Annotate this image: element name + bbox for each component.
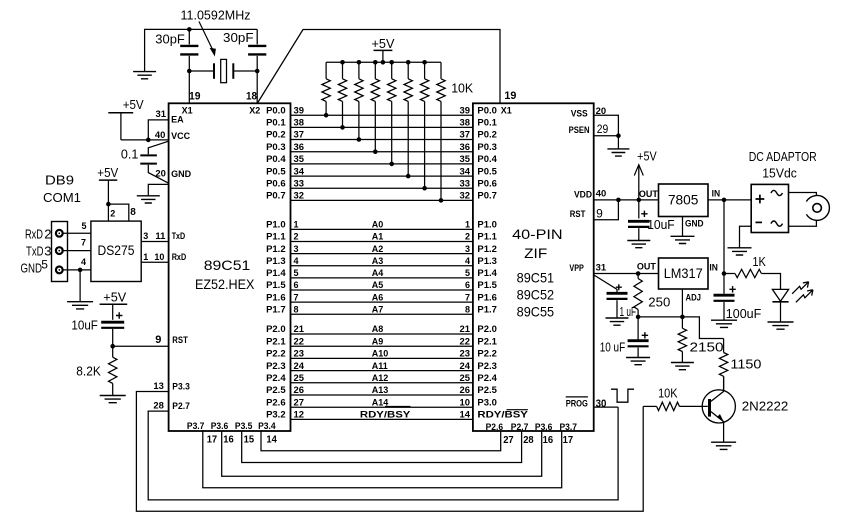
wire: DS275 pin 8 strap [108,204,128,221]
svg-text:IN: IN [712,188,721,198]
svg-text:P3.3: P3.3 [172,382,190,392]
svg-text:P1.5: P1.5 [266,280,286,290]
ground for DB9 GND [67,302,93,309]
svg-text:2: 2 [110,208,115,218]
wire/net P1.3 bus row address A3 [266,256,497,266]
wire: adaptor minus to jack sleeve [789,220,817,226]
label: DS275 pin 3 / U1 pin 11 / TxD [143,231,185,241]
wire/net bus row P2.6 to P3.0 [266,397,497,407]
svg-text:36: 36 [460,142,471,152]
wire/net P0.6 bus row [266,178,497,188]
wire/net bus row P2.1 to P2.1 [266,336,497,346]
junction: ADJ node [680,315,685,320]
connector J1 DB9 header [52,222,68,282]
svg-text:250: 250 [648,295,670,310]
svg-text:16: 16 [543,434,554,446]
wire: ZIF VDD pin 40 to 7805 OUT [594,199,659,201]
label: ZIF bottom pins P2.6 P2.7 P3.6 P3.7 [486,422,577,432]
svg-text:24: 24 [460,361,471,371]
svg-text:89C51: 89C51 [517,270,555,286]
svg-text:8: 8 [294,304,299,314]
label: TxD 3 [26,244,51,259]
svg-text:P3.6: P3.6 [211,421,229,431]
svg-text:P2.7: P2.7 [172,401,190,411]
svg-text:29: 29 [597,122,609,136]
svg-text:7805: 7805 [668,192,699,208]
svg-text:0.1: 0.1 [121,147,139,162]
ground for U1 GND pin [137,196,160,203]
svg-text:P1.3: P1.3 [266,256,286,266]
ic U3 DS275 level shifter [91,221,141,281]
svg-text:35: 35 [460,154,471,164]
svg-text:EZ52.HEX: EZ52.HEX [195,276,255,292]
led D1 power indicator [772,282,813,322]
junction: crystal right lead [255,69,260,74]
resistor RN1-2 10K pull-up to P0.2 [355,62,363,142]
svg-text:3: 3 [143,231,148,241]
junction: LM317 IN node [722,271,727,276]
svg-text:1150: 1150 [730,357,761,372]
junction: crystal left lead [187,69,192,74]
wire: ZIF PSEN pin 29 to ground [594,135,619,137]
wire: U1 P3.6 pin 16 to ZIF P3.6 pin 16 [222,431,542,476]
svg-text:10K: 10K [658,385,678,400]
svg-text:17: 17 [207,433,218,445]
power +5V to reset cap [100,290,128,320]
svg-text:26: 26 [294,385,305,395]
resistor RN1-0 10K pull-up to P0.0 [322,62,330,117]
svg-text:38: 38 [460,118,471,128]
svg-text:EA: EA [171,115,184,125]
ground for adaptor minus [728,248,752,255]
svg-text:A7: A7 [372,304,384,314]
svg-text:A2: A2 [372,244,384,254]
svg-text:40: 40 [596,189,607,199]
svg-text:+5V: +5V [372,36,395,51]
junction: RST node [110,344,115,349]
label: pin 13 P3.3 [153,381,189,391]
svg-text:P0.7: P0.7 [477,191,497,201]
svg-text:PSEN: PSEN [569,125,590,135]
svg-text:COM1: COM1 [43,190,81,205]
svg-text:P2.4: P2.4 [477,373,497,383]
svg-text:P1.0: P1.0 [266,220,286,230]
junction: R2/ADJ/10uF node [636,315,641,320]
svg-text:11.0592MHz: 11.0592MHz [181,8,251,23]
wire: U1 P3.7 pin 17 to ZIF P3.7 pin 17 [203,431,562,488]
svg-text:P2.5: P2.5 [477,385,497,395]
power +5V to DS275 pin 2 [97,165,118,221]
svg-text:TxD: TxD [172,231,186,241]
svg-text:RST: RST [172,335,188,345]
svg-text:P3.7: P3.7 [187,421,205,431]
svg-text:P2.3: P2.3 [477,361,497,371]
svg-text:P1.6: P1.6 [266,292,286,302]
resistor R4 1150 [719,339,761,391]
label: pin 28 P2.7 [153,401,189,411]
resistor RN1-3 10K pull-up to P0.3 [371,62,379,154]
svg-text:P0.3: P0.3 [477,142,497,152]
junction on pull-up rail [357,60,362,65]
svg-text:P2.3: P2.3 [266,361,286,371]
svg-text:P0.1: P0.1 [477,118,497,128]
svg-text:P2.6: P2.6 [266,397,286,407]
svg-text:A10: A10 [372,349,389,359]
label: RxD 2 [25,226,51,241]
capacitor C2 30pF (right) [223,29,266,103]
ground for Q1 emitter [711,442,736,449]
svg-text:P0.2: P0.2 [266,130,286,140]
svg-text:14: 14 [460,410,471,420]
svg-text:P3.0: P3.0 [477,397,497,407]
wire/net P0.4 bus row [266,154,497,164]
svg-text:9: 9 [155,334,161,346]
svg-text:30: 30 [596,398,607,410]
svg-text:RxD: RxD [25,226,43,241]
svg-text:37: 37 [460,130,471,140]
svg-text:2: 2 [294,232,299,242]
junction: 15V rail node [722,198,727,203]
wire: 15V rail down to LM317 IN [723,200,725,274]
wire/net bus row P2.4 to P2.4 [266,373,497,383]
svg-text:31: 31 [156,109,167,119]
ground for crystal caps [133,72,156,79]
svg-text:P2.7: P2.7 [511,422,529,432]
svg-text:11: 11 [155,231,165,241]
svg-text:P1.0: P1.0 [477,220,497,230]
transistor Q1 2N2222 NPN [702,376,788,442]
svg-text:P1.2: P1.2 [266,244,286,254]
resistor RN1-4 10K pull-up to P0.4 [388,62,396,166]
svg-text:36: 36 [294,142,305,152]
power +5V to EA/VCC [108,97,144,140]
capacitor C5 10uF at 7805 output [628,200,675,240]
wire: DB9 pin3 TxD to DS275 pin 7 [63,250,91,252]
svg-text:P0.5: P0.5 [477,166,497,176]
svg-text:25: 25 [460,373,471,383]
svg-text:P1.6: P1.6 [477,292,497,302]
junction: VDD/RST node [616,198,621,203]
svg-text:P2.1: P2.1 [266,336,286,346]
wire: pull-up top rail [326,61,441,63]
svg-text:P2.5: P2.5 [266,385,286,395]
resistor R5 1K to LED [724,254,781,289]
svg-text:P0.3: P0.3 [266,142,286,152]
svg-text:2: 2 [44,226,51,241]
svg-text:ZIF: ZIF [524,245,547,261]
junction: +5V to pull-up rail [381,60,386,65]
resistor R2 250 [634,274,670,317]
wire/net P1.4 bus row address A4 [266,268,497,278]
svg-text:DC ADAPTOR: DC ADAPTOR [749,149,817,164]
svg-text:24: 24 [294,361,305,371]
resistor R3 2150 [678,317,723,362]
svg-text:P0.5: P0.5 [266,166,286,176]
svg-text:4: 4 [465,256,470,266]
svg-text:P2.6: P2.6 [486,422,504,432]
svg-text:P2.2: P2.2 [266,349,286,359]
svg-text:89C52: 89C52 [517,287,555,303]
svg-text:TxD: TxD [26,244,44,259]
svg-text:OUT: OUT [639,189,659,199]
svg-text:PROG: PROG [566,398,588,408]
svg-text:+5V: +5V [97,165,118,180]
svg-text:22: 22 [294,336,305,346]
svg-text:89C55: 89C55 [517,304,555,320]
svg-text:VSS: VSS [571,109,588,119]
svg-text:X1: X1 [501,105,512,115]
wire/net P0.5 bus row [266,166,497,176]
svg-text:7: 7 [294,292,299,302]
svg-text:1K: 1K [752,254,766,269]
svg-text:RxD: RxD [172,252,187,262]
svg-text:39: 39 [294,105,305,115]
wire/net P1.7 bus row address A7 [266,304,497,314]
svg-text:5: 5 [82,221,87,231]
source: DC adaptor box [751,184,788,232]
svg-text:IN: IN [709,263,718,273]
wire: 7805 IN to DC adaptor [708,199,751,201]
svg-text:35: 35 [294,154,305,164]
junction on pull-up rail [373,60,378,65]
wire: DB9 pin5 GND to DS275 pin 4 [63,269,91,271]
svg-text:2N2222: 2N2222 [742,399,789,414]
resistor RN1-6 10K pull-up to P0.6 [420,62,428,190]
svg-text:5: 5 [41,258,48,272]
svg-text:6: 6 [294,280,299,290]
svg-text:23: 23 [294,349,305,359]
junction: DB9 ground branch [78,268,83,273]
svg-text:28: 28 [523,434,534,446]
ground for C7 [626,358,650,365]
svg-text:10uF: 10uF [71,318,98,333]
svg-text:P3.7: P3.7 [560,422,578,432]
svg-text:10 uF: 10 uF [600,340,626,355]
svg-text:4: 4 [294,256,299,266]
svg-text:38: 38 [294,118,305,128]
ground for 7805 [671,236,695,243]
svg-text:ADJ: ADJ [686,292,702,302]
wire/net P1.5 bus row address A5 [266,280,497,290]
svg-text:OUT: OUT [637,262,657,272]
resistor RN1-5 10K pull-up to P0.5 [404,62,412,178]
junction: EA joins VCC rail [146,138,151,143]
svg-text:37: 37 [294,130,305,140]
label: DS275 pin 1 / U1 pin 10 / RxD [143,252,186,262]
svg-text:17: 17 [563,434,574,446]
svg-text:21: 21 [460,324,471,334]
svg-text:1: 1 [143,252,148,262]
svg-text:15Vdc: 15Vdc [762,166,797,181]
power +5V for pull-up network [372,36,395,62]
svg-text:34: 34 [294,166,305,176]
svg-text:1 uF: 1 uF [620,304,637,319]
wire: adaptor plus to jack tip [789,193,817,196]
junction on pull-up rail [389,60,394,65]
label: VDD pin 40 [574,189,606,200]
wire/net bus row P2.5 to P2.5 [266,385,497,395]
svg-text:10uF: 10uF [647,217,675,232]
wire/net P1.0 bus row address A0 [266,220,497,230]
svg-text:4: 4 [81,257,86,267]
capacitor C7 10uF on VPP net [600,317,649,357]
svg-text:RDY/BSY: RDY/BSY [360,410,411,420]
junction: left cap to rail [187,27,192,32]
svg-text:P0.4: P0.4 [477,154,497,164]
svg-text:21: 21 [294,324,305,334]
svg-text:32: 32 [460,191,471,201]
svg-text:P1.7: P1.7 [266,304,286,314]
wire: adaptor minus to ground [740,226,752,247]
power +5V arrow at 7805 output [634,148,657,200]
svg-text:100uF: 100uF [726,306,762,321]
regulator U5 LM317 [659,258,709,289]
svg-text:P0.0: P0.0 [477,105,497,115]
wire: VCC pin 40 rail [121,139,169,141]
svg-text:1: 1 [465,220,470,230]
connector: DC barrel jack [806,196,829,221]
svg-text:13: 13 [153,381,164,391]
svg-text:10: 10 [460,397,471,407]
svg-text:18: 18 [246,91,257,103]
svg-text:32: 32 [294,191,305,201]
svg-text:P1.3: P1.3 [477,256,497,266]
wire/net P1.1 bus row address A1 [266,232,497,242]
wire/net bus row P3.2 to RDY/BSY [266,407,528,420]
svg-text:+5V: +5V [103,290,126,305]
svg-text:1: 1 [294,220,299,230]
svg-text:A6: A6 [372,292,384,302]
ground for C8 [711,320,737,327]
svg-text:5: 5 [465,268,470,278]
svg-text:A0: A0 [372,220,384,230]
svg-text:P1.2: P1.2 [477,244,497,254]
capacitor C6 1uF on VPP [594,275,636,319]
label: 11.0592MHz with arrow to crystal [181,8,251,57]
wire: X2 to ZIF X1 (diagonal and top run) [257,30,500,104]
wire/net bus row P2.0 to P2.0 [266,324,497,334]
junction: DS275 pin2/pin8 node [106,202,111,207]
svg-text:A13: A13 [372,385,389,395]
svg-text:10K: 10K [451,81,473,96]
junction: VSS/PSEN ground node [616,133,621,138]
svg-text:30pF: 30pF [223,30,254,45]
svg-text:8: 8 [130,207,136,218]
svg-text:27: 27 [294,397,305,407]
wire: PSEN node to ground [617,136,619,149]
svg-text:RST: RST [570,209,586,219]
svg-text:15: 15 [244,433,255,445]
svg-text:P0.0: P0.0 [266,105,286,115]
svg-text:P2.0: P2.0 [266,324,286,334]
wire: ground rail over 30pF caps [145,29,258,71]
capacitor C3 0.1 decoupling [121,141,169,183]
svg-text:P3.5: P3.5 [235,421,253,431]
svg-text:P3.6: P3.6 [535,422,553,432]
svg-text:DS275: DS275 [98,242,135,258]
svg-text:20: 20 [155,169,166,179]
svg-text:P1.7: P1.7 [477,304,497,314]
svg-text:GND: GND [685,219,704,229]
svg-text:P0.7: P0.7 [266,191,286,201]
wire/net P0.1 bus row [266,118,497,128]
symbol: negative pulse waveform [611,389,634,402]
svg-text:P2.1: P2.1 [477,336,497,346]
svg-text:14: 14 [266,433,277,445]
wire: ADJ net [638,317,724,339]
svg-text:89C51: 89C51 [204,257,251,273]
wire: ZIF RST pin 9 to VDD [594,200,619,220]
svg-text:30pF: 30pF [155,32,185,47]
svg-text:2150: 2150 [690,340,724,355]
svg-text:VPP: VPP [569,263,584,273]
svg-text:A8: A8 [372,324,384,334]
svg-text:27: 27 [503,434,514,446]
svg-text:VCC: VCC [171,131,191,141]
svg-text:28: 28 [153,401,164,411]
wire: ZIF VSS pin 20 to ground [594,115,619,136]
svg-text:P0.2: P0.2 [477,130,497,140]
junction: VPP/250/10uF node [636,271,641,276]
wire: 7805 GND lead [682,217,684,237]
resistor R6 10K to transistor base [643,385,708,410]
svg-text:A12: A12 [372,373,389,383]
wire/net P1.6 bus row address A6 [266,292,497,302]
svg-text:A9: A9 [372,336,384,346]
svg-text:2: 2 [465,232,470,242]
svg-text:12: 12 [294,410,305,420]
svg-text:3: 3 [44,244,51,259]
label: U1 bottom pins P3.7 P3.6 P3.5 P3.4 [187,421,276,431]
svg-text:P0.4: P0.4 [266,154,286,164]
wire: GND pin 20 to ground [148,184,168,195]
svg-text:34: 34 [460,166,471,176]
svg-text:P3.2: P3.2 [266,410,286,420]
svg-text:31: 31 [596,262,607,272]
wire: U1 P3.4 pin 14 to ZIF P2.6 pin 27 [261,431,501,451]
svg-text:P0.6: P0.6 [477,178,497,188]
svg-text:GND: GND [171,169,192,179]
wire/net P0.3 bus row [266,142,497,152]
svg-text:19: 19 [504,90,516,102]
wire: U1 P2.7 pin 28 loop to PROG [148,407,618,500]
wire: DB9 pin2 RxD to DS275 pin 5 [63,232,91,234]
svg-text:33: 33 [294,178,305,188]
resistor R1 8.2K reset pulldown [76,346,117,395]
label: VPP pin 31 [569,262,606,273]
label: PSEN pin 29 [569,122,609,136]
label: RST pin 9 [570,207,603,221]
svg-text:+5V: +5V [123,97,144,112]
ground for C5 [627,241,650,248]
wire: EA pin 31 to +5V rail [148,120,168,140]
junction on pull-up rail [422,60,427,65]
wire/net P0.7 bus row [266,191,497,201]
svg-text:16: 16 [223,433,234,445]
wire: DS275 pin 1 to U1 RxD pin 10 [141,261,168,263]
svg-text:7: 7 [81,238,86,248]
label: ZIF bottom pin numbers [503,434,573,446]
capacitor C1 30pF (left) [155,29,198,103]
ground for R3 [671,363,694,370]
svg-text:P3.4: P3.4 [258,421,276,431]
svg-text:P0.6: P0.6 [266,178,286,188]
svg-text:VDD: VDD [574,190,592,200]
svg-text:7: 7 [465,292,470,302]
svg-text:A5: A5 [372,280,384,290]
label: GND 5 [21,258,49,276]
svg-text:P2.4: P2.4 [266,373,286,383]
